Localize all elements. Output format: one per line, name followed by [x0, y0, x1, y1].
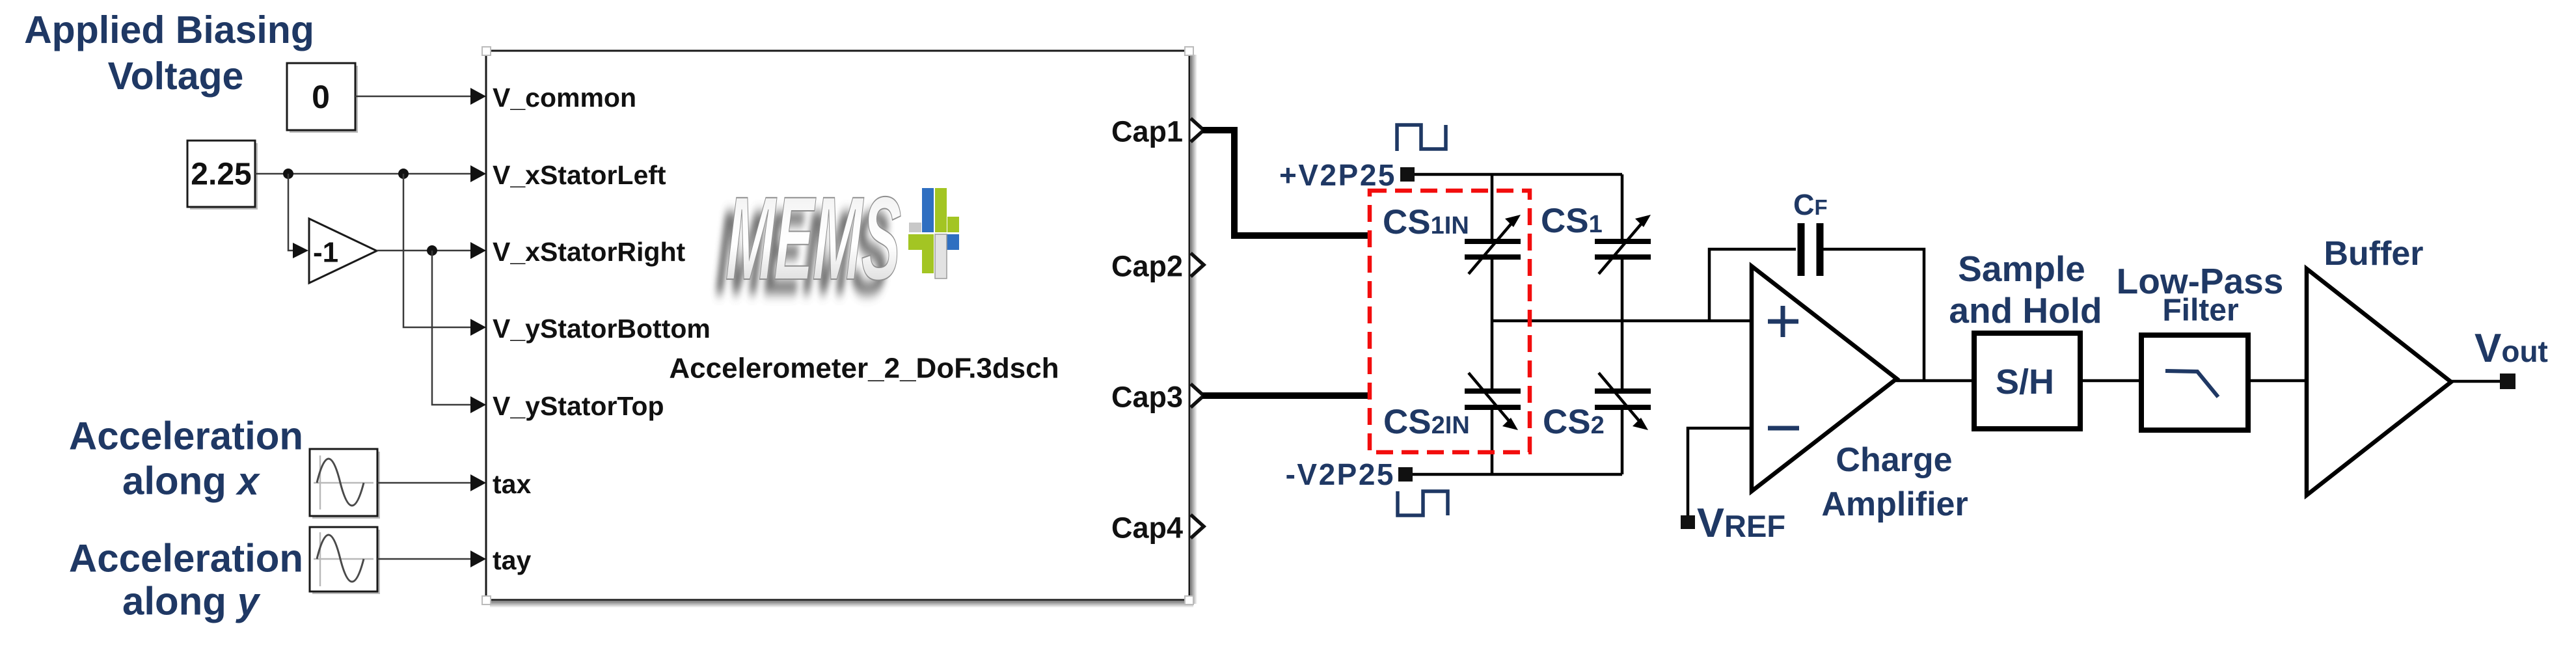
wire to gain input: [288, 174, 294, 251]
capacitor CS1IN: [1465, 215, 1521, 274]
wire branch A upper: [1491, 174, 1494, 240]
svg-text:V_xStatorRight: V_xStatorRight: [493, 237, 685, 267]
wire tax: [377, 482, 472, 484]
capacitor CS2: [1595, 373, 1651, 430]
thick wire Cap3 to CS2IN: [1202, 392, 1368, 399]
svg-text:tay: tay: [493, 545, 531, 575]
sine source tay: [310, 527, 380, 594]
svg-text:Buffer: Buffer: [2324, 235, 2423, 273]
wire -V2P25 rail: [1413, 473, 1622, 476]
wire S/H to LPF: [2082, 379, 2140, 383]
wire +V2P25 rail: [1415, 173, 1622, 176]
wire to V_yStatorBottom: [403, 174, 472, 327]
svg-text:along y: along y: [122, 580, 261, 623]
S/H block: [1974, 333, 2080, 429]
svg-text:Acceleration: Acceleration: [69, 537, 303, 580]
svg-text:0: 0: [312, 79, 330, 115]
clock symbol top: [1397, 125, 1446, 151]
label Charge Amplifier: [1821, 441, 1968, 523]
svg-text:Cap3: Cap3: [1111, 381, 1183, 414]
junction node A1: [283, 169, 293, 179]
wire 2.25 to V_xStatorLeft: [255, 173, 472, 175]
output port Cap1: [1111, 115, 1183, 545]
wire feedback left riser: [1709, 249, 1796, 321]
wire feedback right riser: [1822, 249, 1924, 381]
wire gain to V_xStatorRight: [377, 250, 472, 252]
svg-text:Sample: Sample: [1958, 249, 2085, 289]
svg-text:-1: -1: [313, 237, 338, 269]
svg-text:Amplifier: Amplifier: [1821, 485, 1968, 523]
op-amp U1 charge amplifier: [1752, 266, 1897, 491]
svg-text:-V2P25: -V2P25: [1286, 457, 1395, 491]
wire tay: [377, 558, 472, 560]
svg-text:Charge: Charge: [1836, 441, 1952, 479]
MEMS block Accelerometer_2_DoF.3dsch: [482, 47, 1197, 608]
svg-text:Cap4: Cap4: [1111, 511, 1183, 545]
port label V_common: [493, 83, 711, 575]
gain block -1: [309, 219, 377, 283]
wire 0 to V_common: [355, 96, 472, 98]
svg-text:along x: along x: [122, 459, 261, 503]
wire LPF to buffer: [2250, 379, 2306, 383]
logo plus sign: [908, 188, 959, 278]
svg-text:Filter: Filter: [2162, 293, 2238, 328]
svg-text:tax: tax: [493, 469, 531, 499]
wire branch B upper: [1621, 174, 1624, 240]
wire VREF to inverting input: [1688, 428, 1751, 515]
label Sample and Hold: [1949, 249, 2102, 331]
svg-text:S/H: S/H: [1996, 362, 2054, 401]
buffer amplifier: [2307, 269, 2451, 495]
label Applied Biasing Voltage: [24, 8, 314, 98]
svg-text:Applied Biasing: Applied Biasing: [24, 8, 314, 51]
svg-text:MEMS: MEMS: [725, 172, 902, 305]
thick wire Cap1 to CS1IN: [1202, 130, 1368, 236]
svg-text:V_xStatorLeft: V_xStatorLeft: [493, 160, 666, 190]
terminal square -V2P25: [1398, 467, 1413, 482]
port chevron Cap3: [1191, 384, 1204, 407]
capacitor CS2IN: [1465, 373, 1521, 430]
svg-text:Cap1: Cap1: [1111, 115, 1183, 148]
capacitor CS1: [1595, 215, 1651, 274]
red dashed MEMS cap boundary: [1370, 191, 1530, 452]
svg-text:Cap2: Cap2: [1111, 250, 1183, 283]
svg-text:V_common: V_common: [493, 83, 636, 113]
svg-text:and Hold: and Hold: [1949, 290, 2102, 331]
label Acceleration along y: [69, 537, 303, 623]
svg-text:2.25: 2.25: [191, 157, 251, 192]
sine source tax: [310, 449, 380, 519]
svg-text:Acceleration: Acceleration: [69, 414, 303, 458]
svg-text:+V2P25: +V2P25: [1279, 158, 1396, 192]
port chevron Cap2: [1191, 253, 1204, 277]
MEMS+ logo: [714, 172, 959, 319]
terminal square Vout: [2500, 374, 2515, 389]
wire op-amp output: [1896, 379, 1972, 383]
constant block 2.25: [187, 141, 258, 210]
label Acceleration along x: [69, 414, 303, 503]
svg-text:V_yStatorTop: V_yStatorTop: [493, 391, 664, 421]
port chevron Cap1: [1191, 118, 1204, 142]
junction node B1: [427, 245, 437, 256]
constant block 0: [287, 63, 358, 133]
clock symbol bottom: [1398, 491, 1448, 515]
port chevron Cap4: [1191, 515, 1204, 538]
low-pass filter block: [2141, 335, 2248, 430]
wire output node to op-amp: [1492, 319, 1751, 323]
wire buffer output: [2450, 380, 2500, 383]
svg-text:Accelerometer_2_DoF.3dsch: Accelerometer_2_DoF.3dsch: [669, 353, 1059, 385]
svg-text:V_yStatorBottom: V_yStatorBottom: [493, 314, 711, 344]
svg-text:Voltage: Voltage: [108, 55, 244, 98]
terminal square VREF: [1681, 515, 1695, 529]
wire to V_yStatorTop: [432, 251, 472, 405]
capacitor CF: [1801, 223, 1820, 276]
label Low-Pass Filter: [2117, 261, 2284, 328]
terminal square +V2P25: [1400, 167, 1415, 182]
junction node A2: [398, 169, 409, 179]
